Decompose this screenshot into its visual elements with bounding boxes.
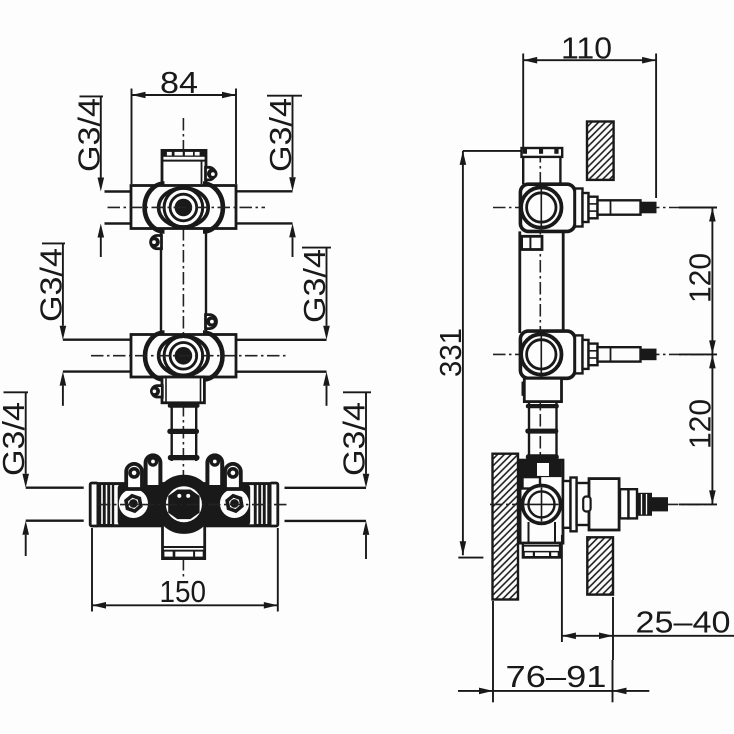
dimension 76-91 line: [458, 690, 649, 692]
mid-right pipe stub: [236, 339, 327, 341]
mixer thread section right: [254, 483, 270, 527]
mid-left pipe stub: [63, 339, 131, 341]
svg-text:25–40: 25–40: [636, 605, 731, 640]
dimension 25-40 extension right: [612, 597, 614, 660]
dimension 120 tick mid: [679, 353, 717, 355]
dimension 84 extension line right: [235, 89, 237, 185]
top-right pipe stub: [236, 190, 293, 192]
dimension 84 line: [132, 94, 237, 96]
wall hatch top right: [587, 122, 614, 180]
mixer center valve white ring: [166, 486, 202, 522]
side mixer notch box: [523, 477, 541, 488]
side ribbed ring 2: [525, 429, 558, 434]
dimension 25-40 arrows: [562, 633, 576, 640]
dimension 25-40 line: [562, 635, 734, 637]
dimension 120 leader: [711, 208, 713, 505]
riser tab left with hole: [149, 236, 161, 249]
side mixer circles: [523, 485, 561, 523]
mid valve lens outline: [159, 336, 209, 375]
riser tab right with hole: [206, 315, 217, 329]
mixer outer ear left: [126, 464, 142, 489]
dimension 331 top extension: [463, 150, 521, 152]
mixer centerline horizontal: [98, 504, 290, 506]
collar below mid valve: [162, 377, 204, 403]
side cap: [522, 148, 563, 157]
dimension 110 arrows: [523, 57, 537, 64]
mixer bottom box: [163, 524, 205, 559]
dimension 84 arrow left: [132, 92, 146, 99]
G3/4 mid-left leader: [33, 243, 68, 405]
dimension 150 extension left: [91, 528, 93, 612]
svg-text:76–91: 76–91: [506, 659, 607, 694]
side mixer cartridge nub: [583, 497, 590, 512]
svg-text:331: 331: [433, 328, 468, 377]
side mixer dark knob: [637, 493, 652, 516]
dimension 110 line: [523, 59, 656, 61]
mid valve ring 2: [164, 337, 203, 376]
G3/4 bottom-left leader: [0, 392, 31, 556]
dimension 120 arrows: [709, 208, 716, 222]
side mixer dark top band: [522, 461, 562, 478]
top valve body: [131, 186, 236, 229]
mixer arm band: [98, 484, 270, 526]
mixer inner ear right: [207, 455, 222, 487]
dimension 120 tick top: [679, 207, 717, 209]
centerline vertical front: [182, 118, 184, 577]
top valve bracket arc left: [145, 184, 165, 232]
side mixer cartridge rings: [620, 489, 637, 518]
wall hatch right lower: [587, 537, 613, 594]
side mixer cartridge block: [589, 479, 619, 530]
top-left pipe stub: [105, 190, 132, 192]
svg-text:G3/4: G3/4: [297, 249, 332, 323]
svg-text:G3/4: G3/4: [0, 402, 31, 476]
side tab box below top valve: [522, 236, 542, 249]
side top centerline horizontal: [493, 207, 712, 209]
side mid centerline horizontal: [493, 353, 712, 355]
mixer center valve dark core octagon: [168, 490, 199, 520]
side mixer dark shaft: [652, 497, 668, 511]
mixer central dark mass: [118, 484, 251, 526]
mixer inner ear left: [146, 455, 161, 487]
svg-text:G3/4: G3/4: [33, 248, 68, 322]
mixer end cap right: [270, 483, 278, 526]
side mid valve circles: [521, 334, 561, 374]
top valve bracket arc right: [203, 184, 223, 232]
side ribbed ring 3: [526, 454, 559, 459]
side top spindle stack: [575, 189, 657, 227]
dimension 150 arrows: [92, 602, 106, 609]
side mid valve housing: [520, 331, 575, 378]
mid valve dark core: [175, 347, 193, 365]
mid valve bracket arc right: [203, 333, 223, 380]
dimension 84 arrow right: [222, 92, 236, 99]
side mixer body: [520, 460, 563, 543]
dimension 110 extension left: [522, 54, 524, 148]
top valve centerline horizontal: [108, 206, 266, 208]
side column between valves: [518, 231, 521, 333]
bottom-right pipe stub: [285, 487, 367, 489]
side tab box below mid valve: [523, 383, 540, 394]
mixer left nut: white circle, ring, hex: [119, 489, 148, 518]
collar tab left with hole: [150, 386, 162, 397]
dimension 331 leader: [462, 151, 464, 555]
side mixer centerline horizontal: [490, 503, 712, 505]
mixer outer ear right: [225, 464, 241, 489]
dimension 150 line: [92, 604, 278, 606]
ribbed ring 1: [168, 403, 200, 407]
dimension 76-91 arrows: [479, 688, 493, 695]
dimension 84 extension line left: [131, 89, 133, 185]
top valve lens outline: [159, 188, 209, 227]
dimension 25-40 extension left: [561, 535, 563, 642]
svg-text:150: 150: [160, 574, 207, 609]
side collar: [524, 378, 561, 401]
side mixer cartridge flange: [563, 478, 589, 532]
mixer center valve outer dark ring: [159, 479, 209, 529]
G3/4 top-left leader: [71, 96, 106, 257]
mid valve centerline horizontal: [91, 355, 287, 357]
side mid spindle stack: [575, 335, 657, 373]
dimension 76-91 extension right: [612, 660, 614, 702]
riser between top and mid valves: [160, 229, 162, 335]
ribbed ring 3: [168, 455, 200, 460]
top valve cap: [162, 150, 206, 185]
side mixer foot: [523, 543, 560, 558]
side neck below cap: [522, 157, 524, 184]
side top valve housing: [520, 184, 575, 231]
top valve ring 2: [164, 188, 203, 227]
dimension 110 extension right: [655, 54, 657, 199]
side mixer lower inner lines: [528, 522, 530, 543]
svg-text:G3/4: G3/4: [337, 402, 372, 476]
G3/4 mid-right leader: [297, 248, 332, 406]
mixer thread section left: [98, 483, 114, 527]
mid valve ring 3: [170, 343, 197, 370]
G3/4 top-right leader: [263, 96, 302, 257]
top valve ring 3: [170, 194, 197, 221]
side top valve circles: [521, 187, 561, 227]
top valve dark core: [175, 199, 193, 217]
mixer right nut: white circle, ring, hex: [220, 489, 249, 518]
ribbed ring 2: [167, 429, 199, 434]
dimension 150 extension right: [277, 528, 279, 612]
svg-text:110: 110: [561, 31, 612, 66]
side ribbed ring 1: [526, 404, 559, 408]
mixer end cap left: [90, 483, 98, 526]
dimension 331 bottom tick: [458, 557, 483, 559]
svg-text:84: 84: [160, 65, 198, 100]
svg-text:120: 120: [682, 399, 717, 449]
svg-text:G3/4: G3/4: [263, 98, 298, 172]
mid valve body: [131, 335, 236, 378]
mid valve bracket arc left: [145, 333, 165, 380]
dimension 120 tick bottom: [679, 503, 717, 505]
svg-text:G3/4: G3/4: [71, 98, 106, 172]
svg-text:120: 120: [682, 253, 717, 303]
side centerline vertical: [539, 150, 541, 556]
bottom-left pipe stub: [26, 487, 84, 489]
cap tab right with hole: [206, 167, 218, 180]
wall hatch left: [493, 454, 519, 600]
G3/4 bottom-right leader: [337, 392, 372, 559]
riser pipe below collar: [170, 403, 172, 461]
side pipe below collar: [528, 403, 530, 461]
dimension 331 arrows: [460, 151, 467, 165]
dimension 76-91 extension left: [492, 601, 494, 702]
